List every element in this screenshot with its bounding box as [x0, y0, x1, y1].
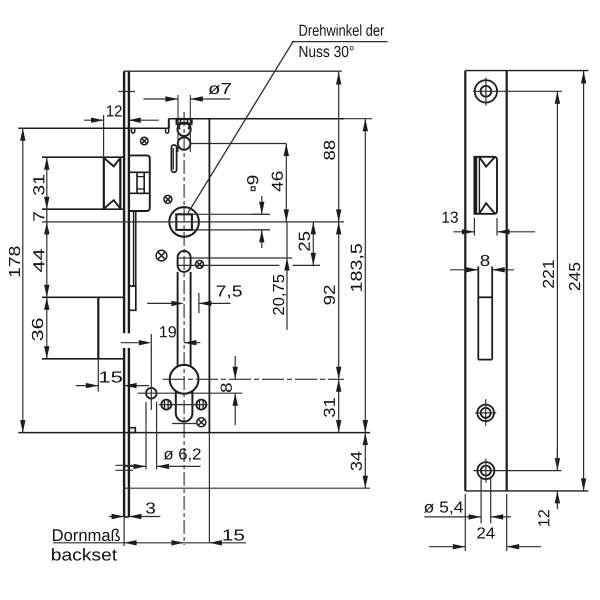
internal plate extension: [208, 433, 210, 543]
faceplate (Stulp) left edge: [123, 71, 125, 517]
dim 7 left text: [33, 212, 44, 221]
dim 12 text: [107, 105, 122, 116]
strike latch V notch: [479, 157, 494, 166]
dim 92 line: [336, 222, 341, 379]
strike top screw crosshair: [473, 78, 562, 106]
dim 8 lock line: [233, 356, 238, 425]
spring slot inner line: [172, 148, 174, 170]
latch bolt inner edge: [119, 157, 121, 209]
strike bottom screw inner: [481, 466, 491, 476]
dim 178 line: [20, 128, 25, 432]
dim 24 text: [477, 527, 494, 538]
dim 36 line: [44, 297, 49, 359]
housing inner bottom line: [130, 192, 150, 194]
latch guide housing: [130, 155, 150, 211]
dim 15 deadbolt text: [100, 371, 122, 382]
strike latch inverted V notch: [479, 203, 494, 213]
spring box: [137, 172, 144, 193]
dim 15 backset text: [223, 529, 244, 540]
screw X5: [197, 418, 206, 427]
latch bolt top edge + ref: [42, 156, 124, 158]
strike latch opening left thick edge: [476, 157, 480, 214]
strike plate edge ext lines: [465, 494, 506, 551]
dim o7 line: [144, 96, 231, 101]
dim 31 right line: [336, 379, 341, 432]
dim 88 line: [336, 72, 341, 222]
square bottom extension: [192, 229, 270, 231]
guide channel lines: [134, 211, 136, 286]
dim 3 line: [109, 514, 160, 519]
strike bottom screw crosshair: [473, 459, 561, 483]
follower square hole: [176, 214, 192, 230]
dim o7 text: [208, 83, 231, 94]
collar left: [178, 124, 180, 130]
dim 1835 line: [363, 119, 368, 433]
hole 6.2 horizontal centerline / 8 ref: [138, 392, 243, 394]
o7 hole upper circle: [178, 123, 191, 136]
latch face extension line: [103, 115, 105, 157]
dim o62 line: [125, 464, 201, 469]
cylinder centerline: [163, 378, 344, 380]
deadbolt bottom edge + ref: [42, 358, 124, 360]
nut right extension line: [198, 293, 200, 313]
case bottom edge: [18, 432, 370, 434]
slot left side: [177, 272, 179, 367]
dim 178 text: [9, 247, 20, 277]
dim 13 line: [453, 229, 535, 234]
dim 245 line: [581, 71, 586, 491]
case tab 2: [130, 428, 136, 433]
label Nuss 30: [300, 46, 354, 57]
screw X4: [196, 260, 204, 268]
dim 1835 text: [351, 244, 364, 291]
dim 24 line: [429, 544, 541, 549]
dim 19 text: [160, 326, 176, 337]
dim 245 text: [569, 263, 580, 291]
dim o54 text: [424, 501, 463, 514]
dim o62 ext lines: [146, 402, 157, 469]
dim 31 left line: [44, 157, 49, 209]
deadbolt face: [97, 297, 99, 359]
deadbolt top edge + ref: [42, 296, 124, 298]
adjustment bar ticks: [181, 119, 188, 124]
screw X3: [156, 250, 167, 261]
strike middle screw outer: [477, 405, 494, 422]
case top-left edge + 178 ref: [18, 127, 169, 129]
dim 3 text: [146, 502, 155, 513]
strike cutout bottom edge: [478, 359, 492, 361]
dim 46 line: [284, 144, 289, 222]
internal plate edge: [208, 119, 210, 433]
housing inner top line: [130, 171, 150, 173]
46 top reference line: [191, 143, 287, 145]
guide slot obround: [178, 251, 191, 272]
dim 92 text: [324, 286, 335, 305]
ref line 25: [177, 264, 320, 266]
label Dornmass: [53, 529, 120, 541]
dim 8 lock text: [221, 383, 232, 392]
faceplate top screw tick: [119, 91, 136, 93]
strike cutout top edge: [478, 296, 492, 298]
dim 8 strike line: [450, 267, 514, 272]
faceplate lower screw ticks: [116, 465, 134, 470]
cylinder fix screw centerline: [172, 423, 197, 425]
dim 8 strike text: [481, 255, 490, 266]
case step: [168, 119, 170, 129]
strike top screw outer: [475, 80, 497, 102]
dim 75 line: [147, 301, 230, 306]
dim 12 strike line: [555, 448, 560, 509]
faceplate right edge: [128, 71, 130, 517]
cylinder hole circle: [170, 365, 199, 394]
case tab 1: [130, 286, 136, 310]
spring box inner lines: [137, 177, 144, 189]
dim 12 strike text: [538, 510, 549, 526]
strike cutout sides: [478, 267, 492, 360]
strike middle screw inner: [481, 408, 491, 418]
cylinder screw right: [196, 400, 206, 410]
dim 15 deadbolt line: [76, 383, 149, 388]
case hook 1: [132, 128, 135, 133]
case hook 2: [166, 128, 169, 133]
dim 31 left text: [33, 175, 44, 195]
dim 25 text: [299, 232, 310, 251]
spring slot: [171, 145, 176, 172]
strike middle screw crosshair: [475, 399, 496, 426]
latch bevel V: [104, 158, 120, 166]
dim 2075 line: [284, 222, 289, 330]
faceplate bottom end: [124, 516, 129, 518]
o7 hole lower circle: [178, 137, 191, 150]
dim 44 text: [33, 249, 44, 272]
slot right side: [190, 272, 192, 367]
strike plate left edge: [464, 71, 466, 491]
cylinder screw left: [161, 400, 171, 410]
dim 75 text: [217, 285, 242, 298]
cylinder stem: [176, 391, 193, 422]
dim 2075 text: [273, 275, 286, 315]
dim 19 line: [121, 340, 201, 345]
latch bevel inverted V: [104, 200, 120, 208]
dim 9 text: [247, 176, 258, 191]
dim 9 square refs: [253, 214, 270, 230]
dim o62 text: [164, 448, 201, 461]
strike latch opening box: [474, 157, 497, 214]
dim backset line: [53, 540, 246, 545]
label Drehwinkel der: [300, 24, 385, 36]
dim 36 text: [32, 319, 43, 341]
latch bolt bottom edge + ref: [42, 208, 124, 210]
screw X1: [141, 137, 149, 145]
backset extension line: [123, 517, 125, 546]
dim 44 line: [44, 222, 49, 297]
adjustment bar: [177, 119, 192, 124]
dim 13 text: [443, 212, 458, 223]
square top extension: [192, 213, 270, 215]
dim 34 text: [351, 452, 362, 471]
dim 13 ext lines: [474, 218, 497, 236]
ref line 34 bottom: [125, 487, 370, 489]
nut horizontal centerline: [42, 221, 344, 223]
label backset: [52, 548, 117, 560]
ref line 20.75: [177, 257, 292, 259]
dim 88 text: [324, 141, 335, 160]
vertical centerline: [183, 112, 185, 545]
strike plate bottom edge + ref: [465, 490, 588, 492]
dim 9 line: [259, 196, 264, 248]
screw X2: [164, 195, 172, 203]
dim 221 text: [543, 260, 554, 288]
latch bolt face: [103, 157, 105, 209]
dim 25 line: [311, 222, 316, 266]
dim 1835 ref top: [344, 118, 372, 120]
hole 6.2 vertical extension: [150, 334, 152, 410]
dim 34 line: [363, 433, 368, 489]
dim 12 line: [84, 118, 159, 123]
o7 hole edge extension lines: [178, 95, 190, 152]
dim o54 ext lines: [481, 478, 491, 523]
dim o54 line: [424, 514, 511, 519]
strike bottom screw outer: [477, 462, 494, 479]
strike plate top edge + 245 ref: [465, 70, 588, 72]
leader line Nuss: [188, 42, 293, 213]
collar right: [189, 124, 191, 130]
cylinder screws centerline: [159, 404, 208, 406]
strike plate right edge: [506, 71, 508, 491]
dim 7 left line: [44, 209, 49, 236]
hole 6.2 circle: [146, 388, 157, 399]
faceplate top edge + 88 extension: [124, 70, 342, 72]
leader underline: [292, 41, 388, 43]
dim 46 text: [272, 172, 283, 192]
deadbolt face extension: [97, 359, 99, 392]
dim 31 right text: [324, 398, 335, 417]
follower nut circle: [169, 207, 199, 237]
strike top screw inner: [481, 86, 492, 97]
case top edge: [169, 118, 344, 120]
dim 221 line: [555, 91, 560, 470]
